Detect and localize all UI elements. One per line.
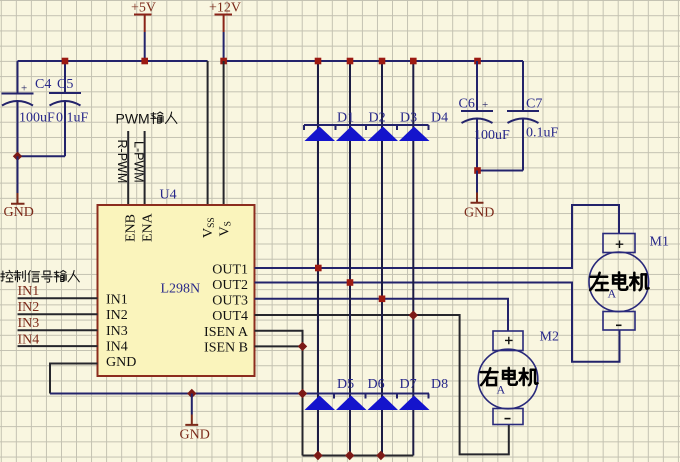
svg-text:C4: C4: [35, 77, 51, 92]
wire OUT4 to M2 bottom: [255, 315, 509, 454]
svg-text:+: +: [482, 99, 488, 111]
wire Vs: [223, 61, 225, 205]
wire diode column 3: [381, 61, 383, 456]
wire GND bus: [50, 393, 429, 395]
svg-text:ENA: ENA: [141, 212, 156, 242]
wire OUT1 to M1: [255, 205, 620, 268]
wire +12V rail: [224, 60, 523, 62]
node junction GND drop: [187, 389, 196, 398]
wire bottom bus: [303, 455, 414, 457]
svg-text:IN1: IN1: [18, 284, 40, 299]
svg-text:+: +: [21, 83, 27, 95]
node junction OUT1/D1: [315, 265, 322, 272]
capacitor C6: [459, 61, 511, 171]
wire C6-C7 bottom link: [477, 170, 523, 172]
motor M2: [478, 331, 538, 425]
wire diode column 1: [317, 61, 319, 456]
svg-text:U4: U4: [160, 188, 177, 203]
wire ISEN vertical: [302, 346, 304, 455]
svg-text:IN4: IN4: [106, 340, 128, 355]
node junction C5 top: [62, 58, 69, 65]
svg-text:IN2: IN2: [106, 308, 128, 323]
svg-text:D2: D2: [369, 111, 386, 126]
node junction +12V: [220, 58, 227, 65]
svg-text:M1: M1: [650, 235, 669, 250]
node junction rail D4: [410, 58, 417, 65]
svg-text:A: A: [608, 287, 617, 301]
svg-text:ENB: ENB: [124, 214, 139, 242]
wire OUT3 to M2: [255, 299, 509, 331]
node junction +5V: [141, 58, 148, 65]
svg-text:GND: GND: [464, 206, 494, 221]
svg-text:L-PWM: L-PWM: [131, 141, 145, 183]
diode D5: [305, 377, 429, 410]
wire ISEN B: [255, 345, 303, 347]
svg-text:L298N: L298N: [161, 282, 201, 297]
svg-text:D1: D1: [337, 111, 354, 126]
diode D2: [336, 111, 386, 142]
capacitor C7: [507, 61, 559, 171]
node junction rail C6: [474, 58, 481, 65]
svg-text:OUT4: OUT4: [212, 309, 248, 324]
wire C4-C5 bottom link: [18, 155, 66, 157]
svg-text:100uF: 100uF: [474, 128, 510, 143]
svg-text:ISEN A: ISEN A: [204, 325, 249, 340]
svg-text:C6: C6: [459, 97, 475, 112]
wire IN4: [18, 345, 98, 347]
diode D6: [336, 377, 385, 410]
capacitor C5: [49, 61, 89, 156]
svg-text:IN3: IN3: [106, 324, 128, 339]
node junction rail D1: [315, 58, 322, 65]
svg-text:D6: D6: [368, 377, 385, 392]
svg-text:GND: GND: [180, 428, 210, 443]
svg-text:C5: C5: [57, 77, 73, 92]
svg-text:OUT1: OUT1: [212, 263, 248, 278]
wire L-PWM: [144, 131, 146, 205]
node junction rail D3: [379, 58, 386, 65]
svg-text:M2: M2: [540, 330, 559, 345]
capacitor C4: [2, 61, 56, 156]
wire OUT2 to M1 bottom: [255, 283, 620, 362]
svg-text:C7: C7: [526, 97, 542, 112]
node junction OUT3/D3: [379, 296, 386, 303]
motor M1: [589, 234, 649, 331]
node junction OUT2/D2: [347, 279, 354, 286]
svg-text:D3: D3: [400, 111, 417, 126]
svg-text:A: A: [497, 383, 506, 397]
svg-text:GND: GND: [106, 355, 136, 370]
diode D3: [368, 111, 418, 142]
svg-text:OUT3: OUT3: [212, 294, 248, 309]
wire IN3: [18, 329, 98, 331]
ground GND left: [4, 156, 34, 220]
svg-text:R-PWM: R-PWM: [115, 140, 129, 184]
wire IN2: [18, 313, 98, 315]
svg-text:D8: D8: [431, 377, 448, 392]
wire R-PWM: [127, 131, 129, 205]
wire diode column 2: [349, 61, 351, 456]
svg-text:+5V: +5V: [131, 1, 156, 16]
node junction ISEN/GND bus: [298, 389, 307, 398]
power +5V: [131, 1, 156, 62]
svg-text:100uF: 100uF: [19, 111, 55, 126]
svg-text:GND: GND: [4, 205, 34, 220]
node junction bottom D5: [313, 451, 322, 460]
svg-text:IN3: IN3: [18, 316, 40, 331]
node junction bottom D6: [345, 451, 354, 460]
svg-text:IN1: IN1: [106, 293, 128, 308]
node junction ISEN: [298, 342, 307, 351]
svg-text:ISEN B: ISEN B: [204, 341, 248, 356]
label PWM input (Chinese): [116, 111, 177, 127]
svg-text:D4: D4: [431, 111, 448, 126]
wire chip GND pin: [50, 364, 98, 394]
svg-text:0.1uF: 0.1uF: [526, 126, 559, 141]
svg-text:D7: D7: [400, 377, 417, 392]
wire diode column 4: [412, 61, 414, 456]
IC U4 L298N body: [98, 205, 255, 376]
svg-text:0.1uF: 0.1uF: [56, 111, 89, 126]
svg-text:+12V: +12V: [209, 1, 241, 16]
node junction bottom D7: [376, 451, 385, 460]
svg-text:IN2: IN2: [18, 300, 40, 315]
ground GND right: [464, 171, 494, 221]
label control signal input (Chinese): [1, 270, 80, 282]
ground GND bottom: [180, 394, 210, 443]
diode D1: [304, 111, 429, 142]
svg-text:OUT2: OUT2: [212, 278, 248, 293]
diode D4: [399, 111, 448, 142]
node junction C4/C5/GND: [13, 152, 22, 161]
wire +5V rail: [18, 60, 208, 62]
svg-text:PWM: PWM: [116, 111, 150, 127]
power +12V: [209, 1, 241, 62]
node junction rail D2: [347, 58, 354, 65]
node junction C6 bottom: [474, 167, 481, 174]
diode D7: [368, 377, 417, 410]
wire Vss: [207, 61, 209, 205]
diode D8: [399, 377, 448, 410]
svg-text:D5: D5: [337, 377, 354, 392]
node junction OUT4/D4: [409, 311, 418, 320]
wire IN1: [18, 297, 98, 299]
wire ISEN A: [255, 331, 303, 347]
